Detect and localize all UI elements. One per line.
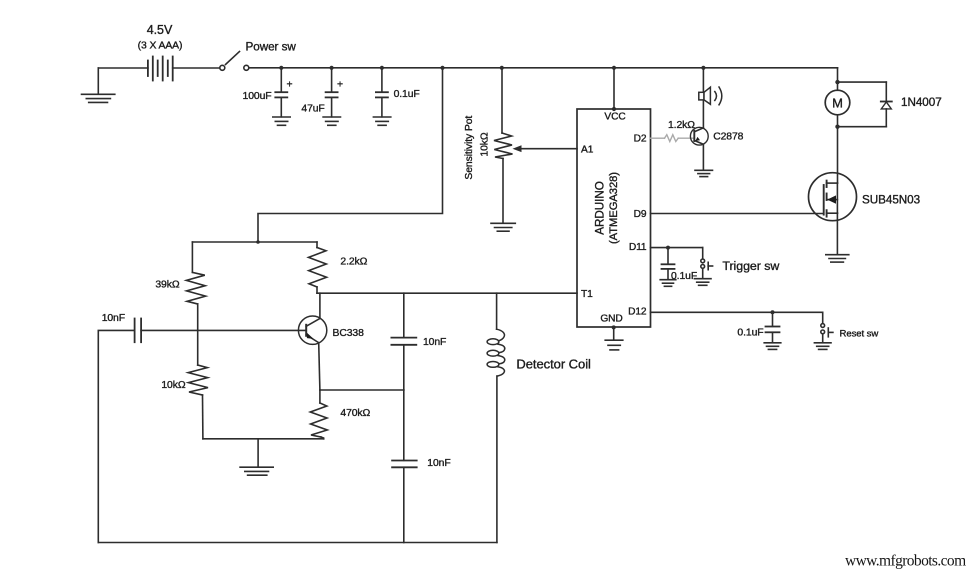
wire: base node <box>141 329 306 331</box>
capacitor 100uF <box>275 68 287 117</box>
wire: battery to power switch <box>173 67 220 69</box>
inductor Detector Coil <box>487 293 505 542</box>
ground (reset switch) <box>814 343 831 350</box>
wire: D11 to trigger switch <box>651 247 703 249</box>
wire: oscillator top rail <box>192 241 317 243</box>
svg-text:BC338: BC338 <box>333 328 365 339</box>
wire: top power rail <box>249 67 838 69</box>
capacitor 47uF <box>326 68 338 117</box>
svg-text:10kΩ: 10kΩ <box>479 132 490 156</box>
transistor Q2 C2878 <box>690 127 708 170</box>
svg-text:+: + <box>337 80 343 91</box>
transistor Q1 BC338 <box>298 293 326 390</box>
svg-text:www.mfgrobots.com: www.mfgrobots.com <box>845 553 966 570</box>
svg-text:C2878: C2878 <box>713 132 743 143</box>
wire: D2 to 1.2k resistor (gray) <box>651 135 695 142</box>
speaker SP1 <box>699 68 722 128</box>
svg-text:1N4007: 1N4007 <box>901 96 942 109</box>
diode D1 1N4007 <box>881 82 892 127</box>
wire: rail feed to oscillator <box>258 68 443 242</box>
capacitor 0.1uF (trigger debounce) <box>662 248 675 280</box>
svg-text:10kΩ: 10kΩ <box>161 380 185 391</box>
svg-text:100uF: 100uF <box>243 91 272 102</box>
svg-text:VCC: VCC <box>604 112 625 123</box>
svg-text:D11: D11 <box>629 242 647 253</box>
junction dot (D12 cap) <box>771 310 775 314</box>
svg-text:D2: D2 <box>634 134 647 145</box>
svg-text:2.2kΩ: 2.2kΩ <box>340 257 367 268</box>
svg-text:0.1uF: 0.1uF <box>737 328 763 339</box>
ground (oscillator) <box>240 439 273 475</box>
junction dot (osc rail) <box>256 240 260 244</box>
switch Reset sw <box>821 312 833 342</box>
ground (100uF) <box>273 117 290 125</box>
ground (pot) <box>491 223 515 231</box>
svg-text:SUB45N03: SUB45N03 <box>862 194 920 207</box>
capacitor 10nF (lower) <box>392 390 417 543</box>
wire: diode branch top <box>838 81 887 83</box>
battery 4.5V (3 X AAA) <box>148 57 173 81</box>
capacitor 0.1uF (rail) <box>376 68 388 117</box>
wire: collector node to Arduino T1 <box>317 292 577 294</box>
ground (trigger switch) <box>694 279 711 286</box>
switch Power sw <box>220 52 249 71</box>
IC U1 ARDUINO (ATMEGA328) box <box>577 109 651 327</box>
svg-text:(ATMEGA328): (ATMEGA328) <box>608 172 620 244</box>
switch Trigger sw <box>701 248 713 279</box>
ground (C2878 emitter) <box>695 170 713 176</box>
junction dot (motor bottom) <box>835 125 839 129</box>
svg-text:(3 X AAA): (3 X AAA) <box>138 41 183 52</box>
resistor 2.2k <box>309 242 327 293</box>
svg-text:D9: D9 <box>634 209 647 220</box>
svg-text:Sensitivity Pot: Sensitivity Pot <box>464 116 475 180</box>
capacitor 0.1uF (reset) <box>766 312 780 342</box>
ground (trigger cap) <box>660 280 676 287</box>
wire: VCC feed <box>613 68 615 109</box>
svg-text:Detector Coil: Detector Coil <box>516 357 591 372</box>
svg-text:4.5V: 4.5V <box>147 23 173 37</box>
potentiometer Sensitivity Pot 10k <box>494 68 513 223</box>
svg-text:0.1uF: 0.1uF <box>394 89 420 100</box>
svg-text:1.2kΩ: 1.2kΩ <box>668 120 695 131</box>
resistor 470k <box>310 390 327 439</box>
svg-text:GND: GND <box>600 313 622 324</box>
capacitor 10nF (input coupling) <box>135 319 142 343</box>
svg-text:Reset sw: Reset sw <box>840 329 879 340</box>
svg-text:10nF: 10nF <box>423 337 446 348</box>
wire: D9 to MOSFET gate <box>651 213 824 215</box>
svg-text:M: M <box>832 96 843 111</box>
resistor 10k <box>188 330 208 438</box>
motor M <box>825 90 850 115</box>
svg-text:A1: A1 <box>581 145 594 156</box>
resistor 39k <box>186 242 205 330</box>
ground (reset cap) <box>764 343 781 350</box>
wire: coupling cap to left rail <box>98 330 134 542</box>
svg-text:10nF: 10nF <box>427 458 450 469</box>
svg-text:+: + <box>287 80 293 91</box>
svg-text:Power sw: Power sw <box>246 41 297 54</box>
svg-text:Trigger sw: Trigger sw <box>722 259 779 273</box>
svg-text:39kΩ: 39kΩ <box>155 280 179 291</box>
ground (0.1uF) <box>373 117 390 125</box>
wire: rail down to motor branch <box>837 68 839 91</box>
wire: emitter node <box>320 389 404 391</box>
ground (MOSFET source) <box>826 255 849 262</box>
svg-text:T1: T1 <box>581 289 593 300</box>
junction dot at GND pin <box>612 325 616 329</box>
svg-text:470kΩ: 470kΩ <box>340 408 370 419</box>
wire: ground to battery <box>98 67 148 69</box>
wire: diode branch bottom <box>838 126 887 128</box>
junction dots on power rail <box>279 66 705 70</box>
ground (battery negative) <box>82 68 115 102</box>
capacitor 10nF (upper feedback) <box>391 293 416 390</box>
svg-text:ARDUINO: ARDUINO <box>594 181 607 235</box>
svg-text:D12: D12 <box>628 307 647 318</box>
ground (47uF) <box>323 117 340 125</box>
wire: pot wiper to A1 with arrowhead <box>513 145 578 152</box>
junction dot (motor top) <box>835 80 839 84</box>
wire: GND pin stem <box>613 327 615 340</box>
wire: D12 to reset switch <box>651 311 823 313</box>
junction dot (D11 cap) <box>666 246 670 250</box>
wire: bottom return rail <box>98 542 497 544</box>
wire: motor bottom to drain <box>837 115 839 183</box>
transistor Q3 SUB45N03 MOSFET <box>809 173 857 255</box>
ground (Arduino GND) <box>605 340 623 350</box>
wire: oscillator bottom rail <box>203 438 324 440</box>
svg-text:10nF: 10nF <box>102 313 125 324</box>
svg-text:47uF: 47uF <box>301 104 324 115</box>
